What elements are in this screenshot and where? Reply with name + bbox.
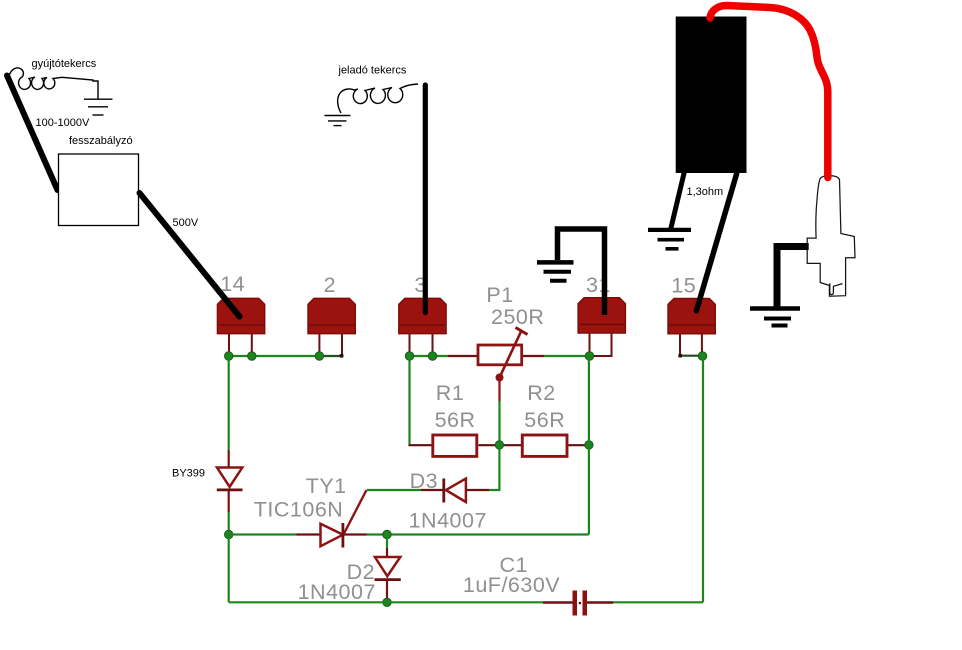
svg-text:1,3ohm: 1,3ohm — [687, 186, 724, 198]
svg-text:BY399: BY399 — [172, 468, 205, 480]
svg-text:56R: 56R — [524, 408, 565, 432]
node R2 right — [585, 441, 593, 449]
node at pad 2 left leg — [315, 352, 323, 360]
svg-text:14: 14 — [220, 272, 245, 296]
wire dark red to R1 — [408, 444, 432, 446]
node anode row left — [225, 530, 233, 538]
svg-text:TY1: TY1 — [306, 474, 347, 498]
capacitor C1 — [543, 591, 613, 616]
svg-text:D3: D3 — [410, 469, 438, 493]
diode D2 — [375, 548, 401, 600]
node at pad 14 right leg — [248, 352, 256, 360]
wire green BY399 down to anode row — [228, 512, 230, 535]
svg-text:15: 15 — [671, 274, 696, 298]
wire green R1 to node — [479, 444, 522, 446]
resistor R2 — [522, 435, 567, 456]
wire thick bracket to ground above terminal 31 — [558, 229, 605, 315]
wire green bottom-left vertical — [228, 535, 230, 603]
terminal pad 15 — [668, 298, 715, 357]
terminal pad 2 — [308, 298, 355, 356]
svg-text:2: 2 — [324, 273, 336, 297]
ground (spark plug) — [750, 309, 800, 326]
svg-text:1uF/630V: 1uF/630V — [463, 573, 560, 597]
wire green P1 to pad 31 — [544, 355, 590, 357]
wire thick lead coil to terminal 15 — [696, 174, 736, 311]
svg-text:56R: 56R — [435, 408, 476, 432]
svg-text:1N4007: 1N4007 — [298, 580, 376, 604]
ground (below gyújtótekercs coil) — [84, 99, 113, 115]
ignition coil scribble (gyújtótekercs) — [9, 68, 98, 99]
svg-text:TIC106N: TIC106N — [254, 498, 344, 522]
svg-text:100-1000V: 100-1000V — [36, 117, 90, 129]
svg-text:1N4007: 1N4007 — [409, 509, 487, 533]
wire P1 left lead — [448, 355, 478, 357]
wire green bus 14-2 — [229, 355, 320, 357]
wire green pad31 down through R2 node to cathode row — [588, 356, 590, 535]
node at pad 31 left leg — [585, 352, 593, 360]
svg-text:R2: R2 — [527, 381, 555, 405]
node TY1 cathode / D2 top — [383, 530, 391, 538]
svg-text:jeladó tekercs: jeladó tekercs — [338, 65, 407, 77]
svg-text:R1: R1 — [436, 381, 464, 405]
potentiometer P1 — [478, 328, 528, 382]
wire thick lead 500V regulator to terminal 14 — [140, 193, 240, 317]
wire thick spark plug to ground — [777, 247, 809, 308]
wire green cathode to R2 vertical — [367, 533, 589, 535]
wire green bottom row left — [229, 601, 543, 603]
wire thick lead gyújtótekercs to regulator — [7, 76, 58, 191]
wire green pad14 node down to BY399 — [228, 356, 230, 450]
wire green R2 to node — [569, 444, 589, 446]
ground (above terminal 31) — [537, 262, 574, 280]
HV coil block (black) — [676, 17, 747, 174]
wire green gate row — [367, 489, 421, 491]
wire green pad3 leg down to R1 — [408, 356, 410, 444]
wire P1 wiper down green — [498, 401, 500, 445]
node at pad 15 right leg — [698, 352, 706, 360]
ground (left of coil) — [648, 230, 691, 249]
wire P1 right lead — [522, 355, 544, 357]
terminal pad 31 — [578, 298, 625, 356]
pickup coil scribble (jeladó tekercs) — [338, 84, 418, 113]
svg-text:P1: P1 — [486, 283, 513, 307]
wire green right vertical to pad 15 — [702, 356, 704, 602]
node R1/R2 junction — [495, 441, 503, 449]
wire dark green wrap pad 2 — [320, 355, 341, 357]
wire green bottom row right — [613, 601, 703, 603]
node at pad 3 left leg — [405, 352, 413, 360]
svg-text:500V: 500V — [173, 217, 199, 229]
wire green anode row — [229, 533, 297, 535]
terminal pad 3 — [399, 298, 446, 356]
svg-text:gyújtótekercs: gyújtótekercs — [32, 58, 97, 70]
node at pad 14 left leg — [225, 352, 233, 360]
terminal pad 14 — [217, 298, 264, 356]
wire green bus at pad 3 — [410, 355, 449, 357]
wire thick vertical jeladó coil to terminal 3 — [423, 85, 428, 313]
thyristor TY1 — [297, 490, 367, 548]
resistor R1 — [433, 435, 477, 456]
wire P1 wiper down dark red — [498, 378, 500, 402]
spark plug — [807, 176, 855, 297]
diode D3 — [421, 479, 489, 503]
node bottom row D2 — [383, 598, 391, 606]
svg-text:fesszabályzó: fesszabályzó — [69, 135, 133, 147]
voltage regulator box (fesszabályzó) — [59, 154, 139, 226]
ground (below jeladó tekercs coil) — [325, 116, 351, 126]
diode BY399 — [217, 450, 243, 512]
wire red HT lead from coil to spark plug — [710, 6, 828, 178]
node at pad 3 right leg — [428, 352, 436, 360]
wire thick lead coil to ground — [671, 173, 684, 228]
wire green below D2 node — [386, 535, 388, 549]
svg-text:250R: 250R — [491, 305, 544, 329]
wire green D3 to junction vertical — [489, 445, 499, 490]
